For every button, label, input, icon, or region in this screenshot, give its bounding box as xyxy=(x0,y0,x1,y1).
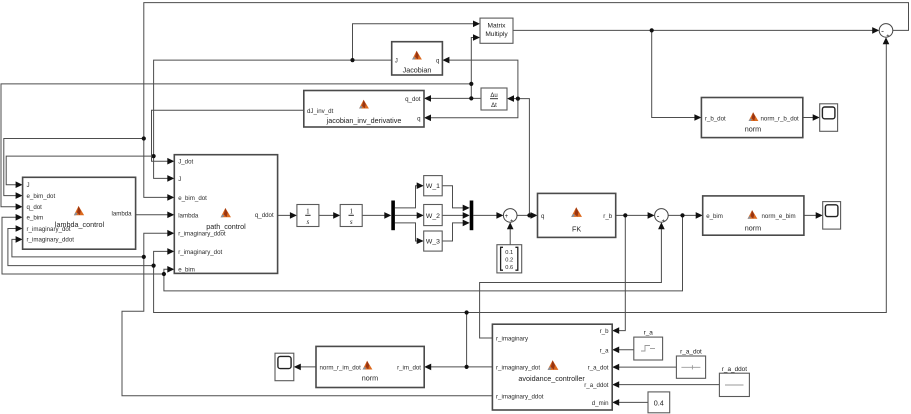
svg-text:lambda: lambda xyxy=(178,212,199,219)
wire net r_imaginary_dot (avoidance out2 to norm, sum3 plus, path_control and lambda_control) xyxy=(8,37,889,370)
svg-text:r_a_ddot: r_a_ddot xyxy=(584,382,609,389)
wire net r_b_dot (Matrix Multiply output to sum3 minus input and norm r_b_dot) xyxy=(513,27,879,121)
block W_1 xyxy=(424,176,443,196)
svg-text:q: q xyxy=(541,213,545,220)
svg-text:1: 1 xyxy=(349,207,353,215)
source block r_a_ddot xyxy=(719,366,749,397)
constant 0.4 xyxy=(648,392,670,413)
sum2 circle xyxy=(655,209,669,225)
svg-text:norm_r_b_dot: norm_r_b_dot xyxy=(761,115,800,122)
block integrator 1 (1/s) xyxy=(297,205,319,227)
block norm (e_bim) xyxy=(703,196,804,235)
svg-text:r_imaginary_dot: r_imaginary_dot xyxy=(496,365,540,372)
svg-text:norm_e_bim: norm_e_bim xyxy=(762,213,796,220)
svg-text:Jacobian: Jacobian xyxy=(403,66,432,75)
svg-text:r_a: r_a xyxy=(644,330,654,337)
wire constant 0.4 to avoidance_controller d_min xyxy=(612,399,648,406)
sum1 circle xyxy=(503,209,517,225)
svg-text:W_2: W_2 xyxy=(426,213,440,220)
wire W_2 to mux in2 xyxy=(442,212,470,219)
svg-text:norm: norm xyxy=(745,125,761,134)
svg-text:W_1: W_1 xyxy=(426,183,440,190)
svg-text:1: 1 xyxy=(306,207,310,215)
wire r_a_dot source to avoidance_controller xyxy=(612,364,676,371)
svg-text:+: + xyxy=(886,34,889,40)
wire net e_bim (sum2 output to norm, path_control e_bim, lambda_control e_bim) xyxy=(2,212,703,291)
mux xyxy=(470,201,474,231)
scope3 xyxy=(275,353,294,381)
svg-text:0.2: 0.2 xyxy=(505,257,513,263)
svg-text:r_a_dot: r_a_dot xyxy=(680,348,702,355)
svg-text:Matrix: Matrix xyxy=(488,23,507,30)
svg-text:J_dot: J_dot xyxy=(178,159,193,166)
wire net q (sum1 output to FK, derivative, Jacobian, jacobian_inv_derivative) xyxy=(424,57,538,219)
sum3 circle xyxy=(879,24,893,40)
svg-text:r_imaginary_ddot: r_imaginary_ddot xyxy=(27,237,75,244)
svg-text:lambda_control: lambda_control xyxy=(55,220,105,229)
svg-text:e_bim: e_bim xyxy=(27,215,44,222)
svg-text:s: s xyxy=(350,218,353,226)
svg-text:r_a: r_a xyxy=(600,347,609,354)
block lambda_control (MATLAB Function) xyxy=(23,177,136,249)
block jacobian_inv_derivative (MATLAB Function, flipped) xyxy=(304,91,424,128)
wire norm_r_b_dot to scope1 xyxy=(803,114,820,121)
svg-text:FK: FK xyxy=(572,225,581,234)
wire mux to sum1 xyxy=(473,212,503,219)
block norm (r_b_dot) xyxy=(701,98,802,138)
wire constant matrix to sum1 plus input xyxy=(507,222,514,245)
block W_2 xyxy=(424,205,443,226)
svg-text:J: J xyxy=(395,58,398,65)
svg-text:r_imaginary_dot: r_imaginary_dot xyxy=(178,249,222,256)
svg-text:norm: norm xyxy=(362,374,378,383)
svg-text:q_ddot: q_ddot xyxy=(255,212,274,219)
svg-text:0.4: 0.4 xyxy=(654,398,664,407)
svg-text:Δu: Δu xyxy=(490,93,497,99)
svg-text:r_b_dot: r_b_dot xyxy=(705,115,726,122)
wire r_a source to avoidance_controller xyxy=(612,347,634,354)
svg-text:e_bim_dot: e_bim_dot xyxy=(178,195,207,202)
svg-text:jacobian_inv_derivative: jacobian_inv_derivative xyxy=(326,116,402,125)
wire integrator1 to integrator2 xyxy=(319,212,340,219)
svg-text:-: - xyxy=(881,25,884,35)
svg-text:lambda: lambda xyxy=(111,211,132,218)
svg-text:r_imaginary_ddot: r_imaginary_ddot xyxy=(496,393,544,400)
block Jacobian (MATLAB Function, flipped) xyxy=(392,42,443,75)
svg-text:s: s xyxy=(307,218,310,226)
svg-text:path_control: path_control xyxy=(206,222,246,231)
wire net e_bim_dot (sum3 output, top long feedback) xyxy=(4,3,909,201)
svg-text:avoidance_controller: avoidance_controller xyxy=(518,374,585,383)
svg-text:r_im_dot: r_im_dot xyxy=(397,364,421,371)
svg-text:e_bim: e_bim xyxy=(178,267,195,274)
block integrator 2 (1/s) xyxy=(340,205,362,227)
wire net dJ_inv_dt (jacobian_inv_derivative output to path_control J_dot) xyxy=(152,110,304,164)
svg-text:r_a_dot: r_a_dot xyxy=(588,365,609,372)
block Matrix Multiply xyxy=(480,18,513,43)
svg-text:r_imaginary: r_imaginary xyxy=(496,336,529,343)
source block r_a_dot xyxy=(676,348,705,378)
wire demux out1 to W_1 xyxy=(395,182,424,208)
svg-text:+: + xyxy=(510,219,513,225)
constant matrix [0.2;0.2;0.6] xyxy=(497,245,522,273)
scope1 xyxy=(820,104,838,132)
wire net J (Jacobian output to path_control J, lambda_control J, Matrix Multiply in1) xyxy=(6,21,480,189)
svg-text:W_3: W_3 xyxy=(426,239,440,246)
svg-text:0.6: 0.6 xyxy=(505,265,513,271)
svg-text:Multiply: Multiply xyxy=(485,31,508,38)
svg-text:r_b: r_b xyxy=(603,213,612,220)
demux xyxy=(391,201,395,231)
svg-text:+: + xyxy=(505,214,509,220)
wire net r_b (FK output to sum2 and avoidance_controller r_b) xyxy=(612,212,654,334)
wire net r_imaginary_ddot (avoidance out3 to path_control and lambda_control) xyxy=(12,230,493,396)
svg-text:norm: norm xyxy=(745,224,761,233)
svg-text:0.1: 0.1 xyxy=(505,250,513,256)
svg-text:norm_r_im_dot: norm_r_im_dot xyxy=(320,364,362,371)
wire net r_imaginary (avoidance_controller out1 to sum2 plus input) xyxy=(480,222,665,338)
source block r_a xyxy=(634,330,663,361)
scope2 xyxy=(823,202,841,230)
wire demux out2 to W_2 xyxy=(395,212,424,219)
block derivative du/dt (flipped) xyxy=(481,88,507,110)
wire norm_e_bim to scope2 xyxy=(804,212,823,219)
svg-text:dJ_inv_dt: dJ_inv_dt xyxy=(307,108,334,115)
svg-text:d_min: d_min xyxy=(592,400,609,407)
svg-text:e_bim_dot: e_bim_dot xyxy=(27,193,56,200)
block FK (MATLAB Function) xyxy=(538,193,616,237)
wire lambda (lambda_control output to path_control lambda) xyxy=(136,212,175,219)
svg-text:J: J xyxy=(27,182,30,189)
wire net q_ddot chain: path_control to integrator 1 xyxy=(278,212,297,219)
svg-text:-: - xyxy=(657,210,660,220)
svg-text:J: J xyxy=(178,176,181,183)
wire demux out3 to W_3 xyxy=(395,223,424,244)
svg-text:+: + xyxy=(662,219,665,225)
svg-text:q_dot: q_dot xyxy=(27,204,43,211)
svg-text:q: q xyxy=(417,115,421,122)
wire r_a_ddot source to avoidance_controller xyxy=(612,381,719,388)
svg-text:r_a_ddot: r_a_ddot xyxy=(722,366,747,373)
wire net q_dot (derivative output to jacobian_inv_derivative, Matrix Multiply in2, lambda_control q_dot) xyxy=(1,34,481,210)
svg-text:Δt: Δt xyxy=(491,103,497,109)
wire norm_r_im_dot to scope3 xyxy=(294,364,316,371)
wire W_3 to mux in3 xyxy=(442,220,470,241)
svg-text:r_b: r_b xyxy=(600,328,609,335)
svg-text:r_imaginary_ddot: r_imaginary_ddot xyxy=(178,231,226,238)
block path_control (MATLAB Function) xyxy=(174,155,277,274)
svg-text:q: q xyxy=(436,58,440,65)
svg-text:e_bim: e_bim xyxy=(706,213,723,220)
wire integrator2 to demux xyxy=(362,212,391,219)
wire W_1 to mux in1 xyxy=(442,186,470,212)
block avoidance_controller (MATLAB Function, flipped) xyxy=(492,324,612,410)
svg-text:q_dot: q_dot xyxy=(405,96,421,103)
block W_3 xyxy=(424,231,443,251)
block norm (r_im_dot, flipped) xyxy=(316,346,424,387)
